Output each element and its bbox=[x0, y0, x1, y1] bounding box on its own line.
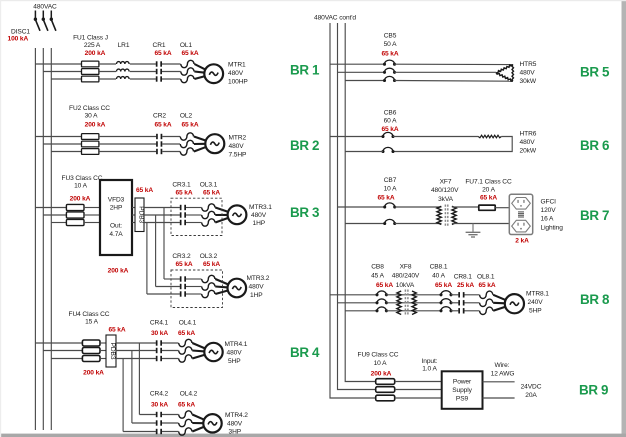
svg-text:40 A: 40 A bbox=[432, 273, 446, 280]
svg-text:65 kA: 65 kA bbox=[175, 190, 192, 197]
wire BR9 line 2 fuse to power supply bbox=[395, 389, 442, 391]
wire BR2 phase 2 fuse to contactor bbox=[99, 143, 156, 145]
circuit breaker CB8.1 pole 3 bbox=[441, 307, 451, 311]
svg-text:65 kA: 65 kA bbox=[435, 282, 452, 289]
fuse FU3 pole 3 bbox=[66, 219, 84, 225]
wire BR3.1 phase 1 PDB to contactor bbox=[144, 207, 180, 209]
overload OL4.2 pole 3 bbox=[179, 428, 192, 435]
wire BR5 phase 1 breaker to heater bbox=[395, 63, 513, 65]
svg-text:OL4.2: OL4.2 bbox=[180, 391, 198, 398]
enclosure dashed box CR3.2/OL3.2 bbox=[171, 270, 223, 308]
transformer XF8 primary winding bbox=[397, 291, 401, 315]
wire BR1 phase 2 bus to fuse bbox=[43, 71, 81, 73]
ground symbol bbox=[472, 224, 474, 232]
svg-text:CR4.2: CR4.2 bbox=[150, 391, 169, 398]
overload OL4.1 pole 1 bbox=[179, 339, 192, 346]
wire BR6 return to bus bbox=[345, 151, 383, 153]
svg-text:FU1 Class J: FU1 Class J bbox=[73, 35, 108, 42]
wire BR4.1 phase 2 contactor to overload bbox=[162, 350, 179, 352]
svg-text:Supply: Supply bbox=[452, 387, 472, 394]
wire BR8 phase 1 bus to breaker bbox=[330, 294, 377, 296]
wire BR4 phase 1 fuse to PDB bbox=[100, 342, 106, 344]
svg-text:120V: 120V bbox=[541, 207, 557, 214]
contactor CR3.2 pole 2 bbox=[180, 284, 182, 289]
wire BR1 phase 3 overload to motor bbox=[194, 76, 205, 79]
wire BR7 secondary neutral to GFCI bbox=[452, 223, 509, 225]
contactor CR3.1 pole 2 bbox=[180, 212, 182, 217]
overload OL8.1 pole 3 bbox=[480, 307, 493, 314]
wire BR4.1 phase 3 overload to motor bbox=[192, 355, 205, 359]
svg-text:65 kA: 65 kA bbox=[181, 50, 198, 57]
circuit breaker CB8 pole 3 bbox=[377, 307, 386, 311]
circuit breaker CB8 pole 1 bbox=[377, 291, 386, 295]
bus 480VAC right phase A bbox=[330, 23, 376, 398]
circuit breaker CB8.1 pole 2 bbox=[441, 299, 451, 303]
svg-text:MTR3.1: MTR3.1 bbox=[249, 204, 272, 211]
svg-text:Wire:: Wire: bbox=[495, 362, 510, 369]
svg-text:60 A: 60 A bbox=[384, 118, 398, 125]
svg-text:BR 8: BR 8 bbox=[580, 292, 610, 307]
fuse FU2 pole 1 bbox=[82, 134, 99, 140]
wire BR8 phase 2 bus to breaker bbox=[338, 302, 378, 304]
svg-text:15 A: 15 A bbox=[85, 319, 99, 326]
contactor CR8.1 pole 2 bbox=[458, 300, 460, 305]
svg-text:480V: 480V bbox=[249, 283, 265, 290]
svg-text:200 kA: 200 kA bbox=[85, 121, 106, 128]
wire BR5 phase 3 bus to breaker bbox=[345, 80, 384, 82]
svg-text:65 kA: 65 kA bbox=[181, 121, 198, 128]
svg-text:65 kA: 65 kA bbox=[480, 195, 497, 202]
contactor CR3.2 pole 1 bbox=[180, 276, 182, 281]
svg-text:MTR1: MTR1 bbox=[228, 62, 246, 69]
svg-text:MTR4.1: MTR4.1 bbox=[225, 341, 248, 348]
svg-text:OL3.1: OL3.1 bbox=[200, 182, 218, 189]
svg-text:CR8.1: CR8.1 bbox=[454, 274, 473, 281]
svg-text:10 A: 10 A bbox=[74, 183, 88, 190]
wire BR8 phase 1 breaker to CB8.1 bbox=[386, 294, 441, 296]
svg-text:4.7A: 4.7A bbox=[109, 231, 123, 238]
wire BR3.1 phase 3 contactor to overload bbox=[186, 222, 202, 224]
svg-text:65 kA: 65 kA bbox=[175, 261, 192, 268]
motor MTR4.2 bbox=[203, 414, 221, 432]
motor MTR3.1 bbox=[228, 205, 247, 224]
svg-text:BR 3: BR 3 bbox=[290, 205, 319, 220]
svg-text:CB8: CB8 bbox=[371, 264, 384, 271]
contactor CR2 pole 3 bbox=[156, 149, 158, 154]
wire BR4.1 phase 3 PDB to contactor bbox=[116, 358, 156, 360]
svg-text:480V: 480V bbox=[229, 143, 245, 150]
wire BR3 phase 1 bus to fuse bbox=[35, 207, 66, 209]
wire BR3.2 phase 2 contactor to overload bbox=[186, 286, 202, 288]
wire BR4 phase 1 bus to fuse bbox=[35, 342, 82, 344]
wire BR8 phase 2 contactor to overload bbox=[465, 302, 480, 304]
wire BR2 phase 2 contactor to overload bbox=[162, 143, 180, 145]
svg-text:PDB3: PDB3 bbox=[109, 343, 116, 360]
svg-text:Power: Power bbox=[453, 378, 472, 385]
wire BR7 fuse to GFCI bbox=[495, 207, 509, 209]
fuse FU1 pole 3 bbox=[82, 76, 99, 82]
overload OL1 pole 1 bbox=[181, 60, 194, 67]
bus 480VAC left phase A bbox=[34, 48, 36, 430]
contactor CR8.1 pole 3 bbox=[458, 308, 460, 313]
svg-text:XF8: XF8 bbox=[400, 264, 412, 271]
wire BR8 phase 3 overload to motor bbox=[493, 307, 506, 311]
power distribution block PDB3 bbox=[135, 198, 144, 232]
circuit breaker CB6 pole 2 bbox=[383, 147, 393, 151]
bus 480VAC left phase B bbox=[42, 48, 44, 430]
svg-text:30 kA: 30 kA bbox=[151, 330, 168, 337]
wire BR1 phase 2 fuse to reactor bbox=[99, 71, 116, 73]
wire PS9 output 24VDC positive bbox=[483, 381, 515, 383]
svg-text:OL2: OL2 bbox=[180, 113, 193, 120]
wire BR4.1 phase 1 overload to motor bbox=[192, 343, 205, 349]
svg-text:MTR4.2: MTR4.2 bbox=[225, 412, 248, 419]
svg-text:1HP: 1HP bbox=[250, 292, 263, 299]
overload OL3.2 pole 1 bbox=[202, 275, 215, 282]
svg-text:65 kA: 65 kA bbox=[377, 195, 394, 202]
wire BR7 line2 bus to breaker bbox=[345, 223, 385, 225]
svg-text:BR 2: BR 2 bbox=[290, 138, 319, 153]
enclosure dashed box CR3.1/OL3.1 bbox=[171, 198, 222, 235]
svg-text:5HP: 5HP bbox=[529, 308, 542, 315]
fuse FU4 pole 2 bbox=[82, 348, 100, 354]
svg-text:PS9: PS9 bbox=[456, 395, 469, 402]
window edge top bbox=[0, 0, 626, 1]
wire BR1 phase 1 reactor to contactor bbox=[130, 63, 156, 65]
svg-text:65 kA: 65 kA bbox=[108, 327, 125, 334]
wire BR5 phase 2 breaker to heater bbox=[395, 71, 497, 73]
wire BR5 phase 3 breaker to heater bbox=[395, 80, 513, 83]
fuse FU9 pole 2 bbox=[376, 387, 395, 393]
wire BR4 phase 3 bus to fuse bbox=[51, 358, 82, 360]
svg-text:HTR5: HTR5 bbox=[520, 61, 537, 68]
motor MTR8.1 bbox=[505, 294, 524, 313]
wire BR4 phase 3 fuse to PDB bbox=[100, 358, 106, 360]
heater HTR6 resistor element bbox=[478, 135, 501, 138]
window edge bottom bbox=[0, 434, 626, 437]
wire BR5 phase 1 bus to breaker bbox=[330, 63, 385, 65]
svg-text:100 kA: 100 kA bbox=[8, 35, 29, 42]
svg-text:2 kA: 2 kA bbox=[515, 238, 529, 245]
line reactor LR1 pole 3 bbox=[117, 77, 130, 79]
svg-text:65 kA: 65 kA bbox=[203, 261, 220, 268]
svg-text:DISC1: DISC1 bbox=[11, 28, 30, 35]
svg-text:2HP: 2HP bbox=[110, 205, 123, 212]
svg-text:BR 6: BR 6 bbox=[580, 138, 609, 153]
wire BR8 phase 1 contactor to overload bbox=[465, 294, 480, 296]
fuse FU1 pole 2 bbox=[82, 69, 99, 75]
wire BR1 phase 3 contactor to overload bbox=[162, 78, 181, 80]
wire BR2 phase 1 contactor to overload bbox=[162, 136, 180, 138]
svg-text:FU2 Class CC: FU2 Class CC bbox=[69, 105, 110, 112]
svg-text:CB5: CB5 bbox=[384, 33, 397, 40]
overload OL2 pole 2 bbox=[180, 140, 193, 147]
wire BR2 phase 3 overload to motor bbox=[194, 147, 207, 152]
wire BR1 phase 1 contactor to overload bbox=[162, 63, 181, 65]
svg-text:7.5HP: 7.5HP bbox=[229, 152, 248, 159]
svg-text:30 A: 30 A bbox=[85, 113, 99, 120]
wire BR4.1 phase 1 contactor to overload bbox=[162, 342, 179, 344]
power distribution block PDB4 bbox=[106, 335, 116, 367]
svg-text:65 kA: 65 kA bbox=[136, 187, 153, 194]
overload OL1 pole 2 bbox=[181, 68, 194, 75]
VFD drive VFD3 bbox=[100, 180, 132, 255]
fuse FU1 pole 1 bbox=[82, 61, 99, 67]
circuit breaker CB7 pole 2 bbox=[385, 219, 395, 223]
wire BR4.1 phase 3 contactor to overload bbox=[162, 358, 179, 360]
svg-text:GFCI: GFCI bbox=[541, 199, 557, 206]
wire BR4.2 phase 3 to contactor bbox=[123, 431, 156, 433]
svg-text:BR 5: BR 5 bbox=[580, 64, 610, 79]
wire BR7 line2 breaker to transformer bbox=[395, 223, 442, 225]
svg-text:200 kA: 200 kA bbox=[108, 268, 129, 275]
overload OL3.2 pole 3 bbox=[202, 290, 215, 297]
window edge left bbox=[0, 0, 1, 437]
wire BR2 phase 1 fuse to contactor bbox=[99, 136, 156, 138]
wire BR1 phase 3 bus to fuse bbox=[51, 78, 81, 80]
wire BR4.2 phase 1 overload to motor bbox=[192, 415, 204, 420]
window edge right bbox=[622, 0, 626, 437]
overload OL2 pole 1 bbox=[180, 133, 193, 140]
wire BR2 phase 2 overload to motor bbox=[194, 143, 206, 145]
contactor CR3.2 pole 3 bbox=[180, 291, 182, 296]
wire BR2 phase 3 fuse to contactor bbox=[99, 151, 156, 153]
disconnect DISC1 bbox=[34, 11, 36, 19]
wire BR8 phase 3 to contactor bbox=[451, 310, 458, 312]
circuit breaker CB5 pole 1 bbox=[385, 60, 395, 64]
overload OL4.1 pole 2 bbox=[179, 347, 192, 354]
wire BR4 tap phase 1 down to group 4.2 bbox=[138, 343, 140, 415]
svg-text:20A: 20A bbox=[525, 392, 537, 399]
contactor CR4.1 pole 3 bbox=[156, 356, 158, 361]
svg-text:CR3.2: CR3.2 bbox=[172, 253, 191, 260]
wire BR3 phase 3 fuse to VFD bbox=[84, 222, 100, 224]
overload OL8.1 pole 2 bbox=[480, 299, 493, 306]
wire BR4.2 phase 1 to contactor bbox=[139, 414, 156, 416]
svg-text:200 kA: 200 kA bbox=[85, 50, 106, 57]
svg-text:5HP: 5HP bbox=[228, 358, 241, 365]
bus 480VAC right phase B bbox=[338, 23, 376, 390]
contactor CR4.2 pole 2 bbox=[156, 420, 158, 425]
svg-text:30kW: 30kW bbox=[520, 78, 537, 85]
svg-text:CB7: CB7 bbox=[384, 177, 397, 184]
svg-text:FU7.1 Class CC: FU7.1 Class CC bbox=[465, 179, 512, 186]
svg-text:20 A: 20 A bbox=[482, 187, 496, 194]
wire BR3 phase 1 fuse to VFD bbox=[84, 207, 100, 209]
svg-text:BR 4: BR 4 bbox=[290, 345, 320, 360]
svg-text:CR3.1: CR3.1 bbox=[172, 182, 191, 189]
svg-text:Lighting: Lighting bbox=[541, 224, 564, 231]
overload OL4.2 pole 1 bbox=[179, 411, 192, 418]
svg-text:480/120V: 480/120V bbox=[431, 187, 459, 194]
svg-text:CB8.1: CB8.1 bbox=[430, 264, 448, 271]
svg-text:OL3.2: OL3.2 bbox=[200, 253, 218, 260]
wire BR6 heater loop bbox=[393, 137, 512, 152]
contactor CR3.1 pole 3 bbox=[180, 220, 182, 225]
svg-text:480VAC cont'd: 480VAC cont'd bbox=[314, 15, 356, 22]
wire BR4 tap phase 3 down to group 4.2 bbox=[122, 359, 124, 432]
svg-text:480V: 480V bbox=[520, 139, 536, 146]
fuse FU4 pole 1 bbox=[82, 340, 100, 346]
svg-text:10 A: 10 A bbox=[374, 360, 388, 367]
svg-text:200 kA: 200 kA bbox=[371, 370, 392, 377]
contactor CR1 pole 1 bbox=[156, 61, 158, 66]
svg-text:OL1: OL1 bbox=[180, 42, 193, 49]
wire BR3.2 phase 3 to contactor bbox=[147, 293, 180, 295]
fuse FU9 pole 1 bbox=[376, 379, 395, 385]
wire BR3 phase 2 VFD to PDB bbox=[132, 214, 135, 216]
svg-text:30 kA: 30 kA bbox=[151, 402, 168, 409]
contactor CR4.1 pole 2 bbox=[156, 348, 158, 353]
circuit breaker CB8 pole 2 bbox=[377, 299, 386, 303]
svg-text:65 kA: 65 kA bbox=[154, 121, 171, 128]
svg-text:BR 7: BR 7 bbox=[580, 208, 609, 223]
svg-text:480/240V: 480/240V bbox=[392, 273, 420, 280]
wire BR4.2 phase 3 overload to motor bbox=[192, 427, 204, 432]
svg-text:200 kA: 200 kA bbox=[70, 196, 91, 203]
wire BR3.2 phase 1 overload to motor bbox=[215, 279, 228, 285]
wire BR1 phase 1 overload to motor bbox=[194, 64, 205, 70]
wire BR3.1 phase 2 PDB to contactor bbox=[144, 214, 180, 216]
svg-text:225 A: 225 A bbox=[84, 42, 101, 49]
wire BR4 tap phase 2 down to group 4.2 bbox=[131, 351, 133, 424]
wire BR8 phase 2 breaker to CB8.1 bbox=[386, 302, 441, 304]
wire BR3 phase 2 fuse to VFD bbox=[84, 214, 100, 216]
motor MTR1 bbox=[204, 64, 223, 83]
circuit breaker CB8.1 pole 1 bbox=[441, 291, 451, 295]
wire BR3 phase 3 bus to fuse bbox=[51, 222, 66, 224]
wire BR3.2 phase 3 overload to motor bbox=[215, 290, 228, 294]
svg-text:16 A: 16 A bbox=[541, 216, 555, 223]
wire BR8 phase 3 contactor to overload bbox=[465, 310, 480, 312]
bus 480VAC left phase C bbox=[50, 48, 52, 430]
transformer XF7 primary winding bbox=[437, 206, 441, 224]
wire BR3 tap phase 2 down to group 3.2 bbox=[155, 215, 157, 287]
wire BR2 phase 3 bus to fuse bbox=[51, 151, 81, 153]
transformer XF7 secondary winding bbox=[452, 206, 456, 224]
bus 480VAC right phase C bbox=[345, 23, 375, 382]
svg-text:45 A: 45 A bbox=[371, 273, 385, 280]
wire BR8 phase 2 overload to motor bbox=[493, 302, 505, 305]
svg-text:10 A: 10 A bbox=[384, 186, 398, 193]
wire BR4.2 phase 2 to contactor bbox=[132, 422, 156, 424]
svg-text:HTR6: HTR6 bbox=[520, 131, 537, 138]
wire BR3.2 phase 1 to contactor bbox=[164, 278, 180, 280]
overload OL2 pole 3 bbox=[180, 148, 193, 155]
contactor CR4.2 pole 1 bbox=[156, 412, 158, 417]
svg-text:CB6: CB6 bbox=[384, 110, 397, 117]
contactor CR2 pole 2 bbox=[156, 141, 158, 146]
svg-text:65 kA: 65 kA bbox=[178, 402, 195, 409]
overload OL3.1 pole 1 bbox=[202, 204, 215, 211]
overload OL3.2 pole 2 bbox=[202, 283, 215, 290]
svg-text:Out:: Out: bbox=[110, 223, 122, 230]
circuit breaker CB7 pole 1 bbox=[385, 203, 395, 207]
wire BR1 phase 2 overload to motor bbox=[194, 72, 205, 73]
wire BR8 phase 3 breaker to CB8.1 bbox=[386, 310, 441, 312]
svg-text:1.0 A: 1.0 A bbox=[422, 365, 437, 372]
wire BR3.2 phase 2 overload to motor bbox=[215, 285, 228, 288]
svg-text:XF7: XF7 bbox=[440, 179, 452, 186]
transformer XF8 core bbox=[404, 290, 406, 317]
wire BR3 tap phase 3 down to group 3.2 bbox=[146, 223, 148, 295]
circuit breaker CB5 pole 3 bbox=[385, 76, 395, 80]
contactor CR8.1 pole 1 bbox=[458, 292, 460, 297]
svg-text:BR 9: BR 9 bbox=[579, 382, 608, 397]
wire BR3 phase 2 bus to fuse bbox=[43, 214, 66, 216]
overload OL3.1 pole 2 bbox=[202, 211, 215, 218]
svg-text:BR 1: BR 1 bbox=[290, 62, 320, 77]
svg-text:Input:: Input: bbox=[422, 358, 438, 365]
svg-text:3HP: 3HP bbox=[229, 428, 242, 435]
wire BR2 phase 1 bus to fuse bbox=[35, 136, 81, 138]
wire BR2 phase 2 bus to fuse bbox=[43, 143, 81, 145]
wire BR3.2 phase 3 contactor to overload bbox=[186, 293, 202, 295]
wire BR8 phase 1 overload to motor bbox=[493, 295, 506, 300]
fuse FU3 pole 2 bbox=[66, 212, 84, 218]
svg-text:24VDC: 24VDC bbox=[521, 383, 542, 390]
wire BR3 tap phase 1 down to group 3.2 bbox=[163, 208, 165, 280]
wire BR8 phase 1 to contactor bbox=[451, 294, 458, 296]
svg-text:FU4 Class CC: FU4 Class CC bbox=[69, 311, 110, 318]
wire BR4 phase 2 bus to fuse bbox=[43, 350, 82, 352]
fuse FU2 pole 3 bbox=[82, 149, 99, 155]
svg-text:MTR3.2: MTR3.2 bbox=[247, 275, 270, 282]
wire BR4.2 phase 3 contactor to overload bbox=[162, 431, 179, 433]
svg-text:480VAC: 480VAC bbox=[33, 4, 57, 11]
svg-text:FU9 Class CC: FU9 Class CC bbox=[358, 352, 399, 359]
svg-text:VFD3: VFD3 bbox=[108, 197, 125, 204]
svg-text:50 A: 50 A bbox=[384, 41, 398, 48]
transformer XF7 core bbox=[444, 205, 446, 227]
wire BR3.1 phase 1 overload to motor bbox=[215, 208, 228, 213]
wire BR1 phase 1 fuse to reactor bbox=[99, 63, 116, 65]
svg-text:65 kA: 65 kA bbox=[376, 282, 393, 289]
svg-text:CR2: CR2 bbox=[153, 113, 166, 120]
svg-text:65 kA: 65 kA bbox=[478, 282, 495, 289]
wire BR3 phase 3 VFD to PDB bbox=[132, 222, 135, 224]
motor MTR2 bbox=[205, 134, 224, 153]
circuit breaker CB6 pole 1 bbox=[383, 132, 393, 136]
fuse FU7.1 bbox=[479, 205, 495, 210]
wire BR3.1 phase 3 PDB to contactor bbox=[144, 222, 180, 224]
wire BR3.2 phase 1 contactor to overload bbox=[186, 278, 202, 280]
wire BR9 line 3 fuse to power supply bbox=[395, 397, 442, 399]
svg-text:OL4.1: OL4.1 bbox=[179, 320, 197, 327]
svg-text:12 AWG: 12 AWG bbox=[491, 371, 515, 378]
wire BR3 phase 1 VFD to PDB bbox=[132, 207, 135, 209]
overload OL8.1 pole 1 bbox=[480, 291, 493, 298]
svg-text:240V: 240V bbox=[528, 299, 544, 306]
GFCI receptacle bbox=[509, 194, 532, 234]
line reactor LR1 pole 1 bbox=[117, 62, 130, 64]
svg-text:65 kA: 65 kA bbox=[178, 330, 195, 337]
svg-text:MTR8.1: MTR8.1 bbox=[526, 291, 549, 298]
contactor CR1 pole 3 bbox=[156, 76, 158, 81]
svg-text:65 kA: 65 kA bbox=[154, 50, 171, 57]
wire BR3.1 phase 2 overload to motor bbox=[215, 214, 228, 216]
svg-text:65 kA: 65 kA bbox=[381, 126, 398, 133]
wire BR4.1 phase 2 overload to motor bbox=[192, 349, 205, 352]
wire BR1 phase 3 reactor to contactor bbox=[130, 78, 156, 80]
wire BR1 phase 3 fuse to reactor bbox=[99, 78, 116, 80]
contactor CR1 pole 2 bbox=[156, 69, 158, 74]
wire BR7 secondary hot to fuse bbox=[452, 206, 479, 208]
svg-text:200 kA: 200 kA bbox=[83, 370, 104, 377]
svg-text:CR1: CR1 bbox=[153, 42, 166, 49]
overload OL1 pole 3 bbox=[181, 75, 194, 82]
svg-text:480V: 480V bbox=[228, 70, 244, 77]
